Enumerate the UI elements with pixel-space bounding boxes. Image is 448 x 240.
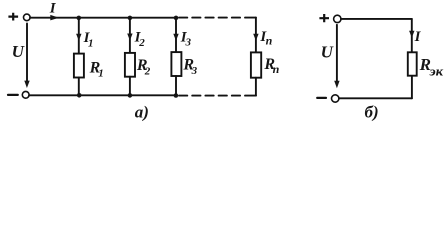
- resistor Rn: [251, 52, 261, 77]
- svg-text:п: п: [266, 34, 273, 48]
- svg-text:б): б): [365, 103, 379, 122]
- minus sign of source terminal (б): [317, 97, 326, 99]
- plus sign of source terminal (б): [319, 14, 329, 22]
- svg-text:1: 1: [88, 37, 94, 49]
- current arrow I (б): [409, 31, 414, 38]
- junction node bottom branch 3: [174, 93, 179, 98]
- svg-text:U: U: [12, 42, 25, 61]
- plus sign of source terminal (а): [8, 13, 18, 21]
- resistor Rэк: [408, 52, 417, 75]
- resistor R2: [125, 53, 135, 77]
- resistor R1: [74, 54, 84, 78]
- minus sign of source terminal (а): [8, 94, 18, 96]
- svg-text:U: U: [321, 43, 334, 62]
- wire branch 2 upper segment: [129, 18, 131, 53]
- wire bottom bus solid (а): [29, 94, 176, 96]
- current arrow I3: [173, 34, 178, 41]
- terminal - node (б): [332, 95, 339, 102]
- wire bottom corner dash into branch n: [250, 95, 256, 97]
- current arrow I (а): [50, 15, 59, 21]
- wire branch 1 upper segment: [78, 18, 80, 54]
- wire right vertical lower segment (б): [411, 76, 413, 98]
- resistor R3: [171, 52, 181, 76]
- wire top bus (б): [341, 18, 412, 20]
- wire branch n upper segment: [255, 18, 257, 53]
- voltage arrow U (б): [334, 25, 339, 88]
- wire bottom bus dashed (а): [179, 95, 250, 97]
- svg-text:2: 2: [144, 65, 151, 77]
- wire bottom bus (б): [339, 97, 412, 99]
- current arrow I1: [76, 34, 81, 41]
- wire top corner dash into branch n: [250, 17, 256, 19]
- terminal - node (а): [22, 91, 29, 98]
- svg-text:3: 3: [191, 65, 198, 77]
- svg-text:3: 3: [185, 37, 192, 49]
- svg-text:а): а): [135, 103, 149, 122]
- junction node top branch 1: [77, 16, 82, 21]
- junction node top branch 3: [174, 16, 179, 21]
- wire branch 3 lower segment: [175, 76, 177, 96]
- svg-text:1: 1: [98, 68, 104, 80]
- junction node bottom branch 2: [128, 93, 133, 98]
- wire top bus solid (а): [30, 17, 176, 19]
- terminal + node (а): [24, 14, 31, 21]
- wire branch n lower segment: [255, 78, 257, 96]
- svg-text:2: 2: [138, 37, 145, 49]
- svg-text:I: I: [414, 29, 422, 45]
- wire top bus dashed (а): [179, 17, 250, 19]
- wire branch 1 lower segment: [78, 78, 80, 96]
- current arrow In: [253, 34, 258, 41]
- voltage arrow U (а): [24, 24, 29, 89]
- wire right vertical upper segment (б): [411, 19, 413, 53]
- junction node bottom branch 1: [77, 93, 82, 98]
- current arrow I2: [127, 34, 132, 41]
- wire branch 2 lower segment: [129, 77, 131, 96]
- svg-text:I: I: [49, 1, 57, 17]
- terminal + node (б): [334, 15, 341, 22]
- svg-text:эк: эк: [428, 64, 443, 79]
- junction node top branch 2: [128, 16, 133, 21]
- wire branch 3 upper segment: [175, 18, 177, 52]
- svg-text:п: п: [273, 62, 280, 76]
